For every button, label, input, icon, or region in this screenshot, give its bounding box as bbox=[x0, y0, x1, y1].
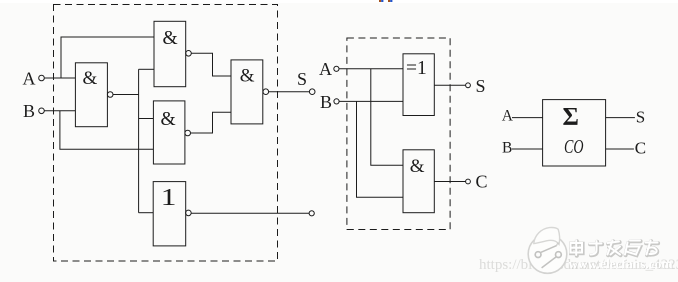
nand gate U3 body (right) bbox=[231, 60, 263, 124]
nand gate U4 output bubble bbox=[186, 51, 192, 57]
input terminal A (left circuit) bbox=[39, 75, 45, 81]
svg-text:&: & bbox=[83, 68, 98, 89]
nand gate U1 output bubble bbox=[107, 92, 113, 98]
wire A to XOR U6 bbox=[339, 68, 403, 70]
svg-text:1: 1 bbox=[161, 185, 177, 211]
wire B to block bbox=[512, 148, 543, 150]
output terminal (unlabeled, left circuit) bbox=[309, 211, 314, 216]
svg-text:B: B bbox=[23, 101, 35, 121]
svg-text:B: B bbox=[320, 92, 332, 112]
inverter U5 body bbox=[153, 182, 186, 246]
svg-text:&: & bbox=[410, 156, 425, 177]
nand gate U1 body bbox=[75, 63, 107, 127]
svg-text:S: S bbox=[476, 76, 486, 96]
svg-text:B: B bbox=[502, 139, 512, 156]
wire A to block bbox=[512, 117, 543, 119]
svg-text:C: C bbox=[476, 172, 488, 192]
input terminal B (middle circuit) bbox=[334, 99, 339, 104]
output terminal C (middle circuit) bbox=[466, 179, 471, 184]
inverter U5 output bubble bbox=[186, 210, 192, 216]
svg-text:&: & bbox=[240, 65, 255, 86]
svg-text:A: A bbox=[23, 68, 36, 88]
wire block to C bbox=[605, 148, 634, 150]
wire B to XOR U6 bbox=[339, 100, 403, 102]
wire A branch to AND U7 bbox=[371, 69, 403, 166]
input terminal B (left circuit) bbox=[39, 108, 45, 114]
svg-text:=1: =1 bbox=[406, 58, 427, 79]
svg-text:A: A bbox=[502, 108, 514, 125]
svg-text:S: S bbox=[297, 69, 307, 89]
nand gate U2 output bubble bbox=[185, 130, 191, 136]
xor gate U6 body bbox=[403, 54, 434, 116]
svg-text:www.elecfans.com: www.elecfans.com bbox=[569, 257, 673, 272]
output terminal S (middle circuit) bbox=[466, 83, 471, 88]
and gate U7 body bbox=[403, 150, 434, 213]
wire bus to U5 input bbox=[139, 212, 154, 214]
watermark logo circle bbox=[528, 228, 567, 274]
wire B branch vertical bbox=[60, 111, 153, 150]
wire U2 output to U3 input2 bbox=[191, 112, 232, 133]
nand gate U4 body (top) bbox=[154, 21, 186, 86]
wire B branch to AND U7 bbox=[357, 101, 404, 197]
half-adder block U8 body bbox=[543, 100, 606, 166]
left circuit boundary (dashed box) bbox=[54, 5, 278, 262]
svg-text:C: C bbox=[635, 138, 646, 157]
wire U4 output to U3 input1 bbox=[191, 53, 231, 76]
output terminal S (left circuit) bbox=[309, 89, 315, 95]
input terminal A (middle circuit) bbox=[334, 66, 339, 71]
svg-text:&: & bbox=[163, 28, 178, 49]
wire U5 output bbox=[191, 212, 309, 214]
wire U1 output to bus bbox=[113, 94, 139, 96]
wire main bus vertical bbox=[138, 69, 140, 212]
wire A input bbox=[44, 77, 75, 79]
top edge cropped glyph dots bbox=[379, 0, 392, 2]
wire A branch vertical bbox=[61, 37, 154, 78]
wire bus to U2 input1 bbox=[139, 118, 154, 120]
wire U6 output to S bbox=[434, 84, 465, 86]
wire B input bbox=[44, 110, 75, 112]
wire U3 output to S terminal bbox=[269, 91, 310, 93]
svg-text:Σ: Σ bbox=[563, 103, 579, 130]
svg-text:CO: CO bbox=[564, 136, 584, 158]
svg-text:A: A bbox=[319, 59, 332, 79]
svg-text:S: S bbox=[636, 108, 645, 127]
wire bus to U4 input2 bbox=[139, 68, 154, 70]
wire U7 output to C bbox=[434, 181, 465, 183]
middle circuit boundary (dashed box) bbox=[347, 38, 450, 230]
svg-text:&: & bbox=[161, 109, 176, 130]
nand gate U3 output bubble bbox=[263, 89, 269, 95]
wire block to S bbox=[605, 117, 635, 119]
nand gate U2 body (middle) bbox=[153, 101, 185, 164]
